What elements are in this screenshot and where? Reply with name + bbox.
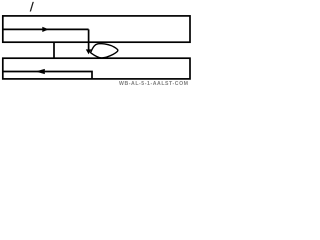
arrowhead: current left on inner bottom line <box>35 69 44 74</box>
wire: bottom turn outer rectangle <box>3 58 190 79</box>
wire: vertical drop from inner top line into crossover <box>88 29 90 50</box>
svg-text:I: I <box>29 0 35 15</box>
arrowhead: current right on inner top line <box>42 27 49 32</box>
svg-text:WB-AL-5-1-AALST-COM: WB-AL-5-1-AALST-COM <box>119 81 189 85</box>
wire: crossover teardrop loop <box>91 44 118 58</box>
wire: top turn inner line (current flows right) <box>3 28 89 30</box>
wire: bottom turn inner line (current flows left) with lead down <box>3 72 92 79</box>
wire: connector between turns <box>53 42 55 58</box>
arrowhead: current down on crossover drop <box>86 49 92 54</box>
wire: top turn outer rectangle <box>3 16 190 42</box>
